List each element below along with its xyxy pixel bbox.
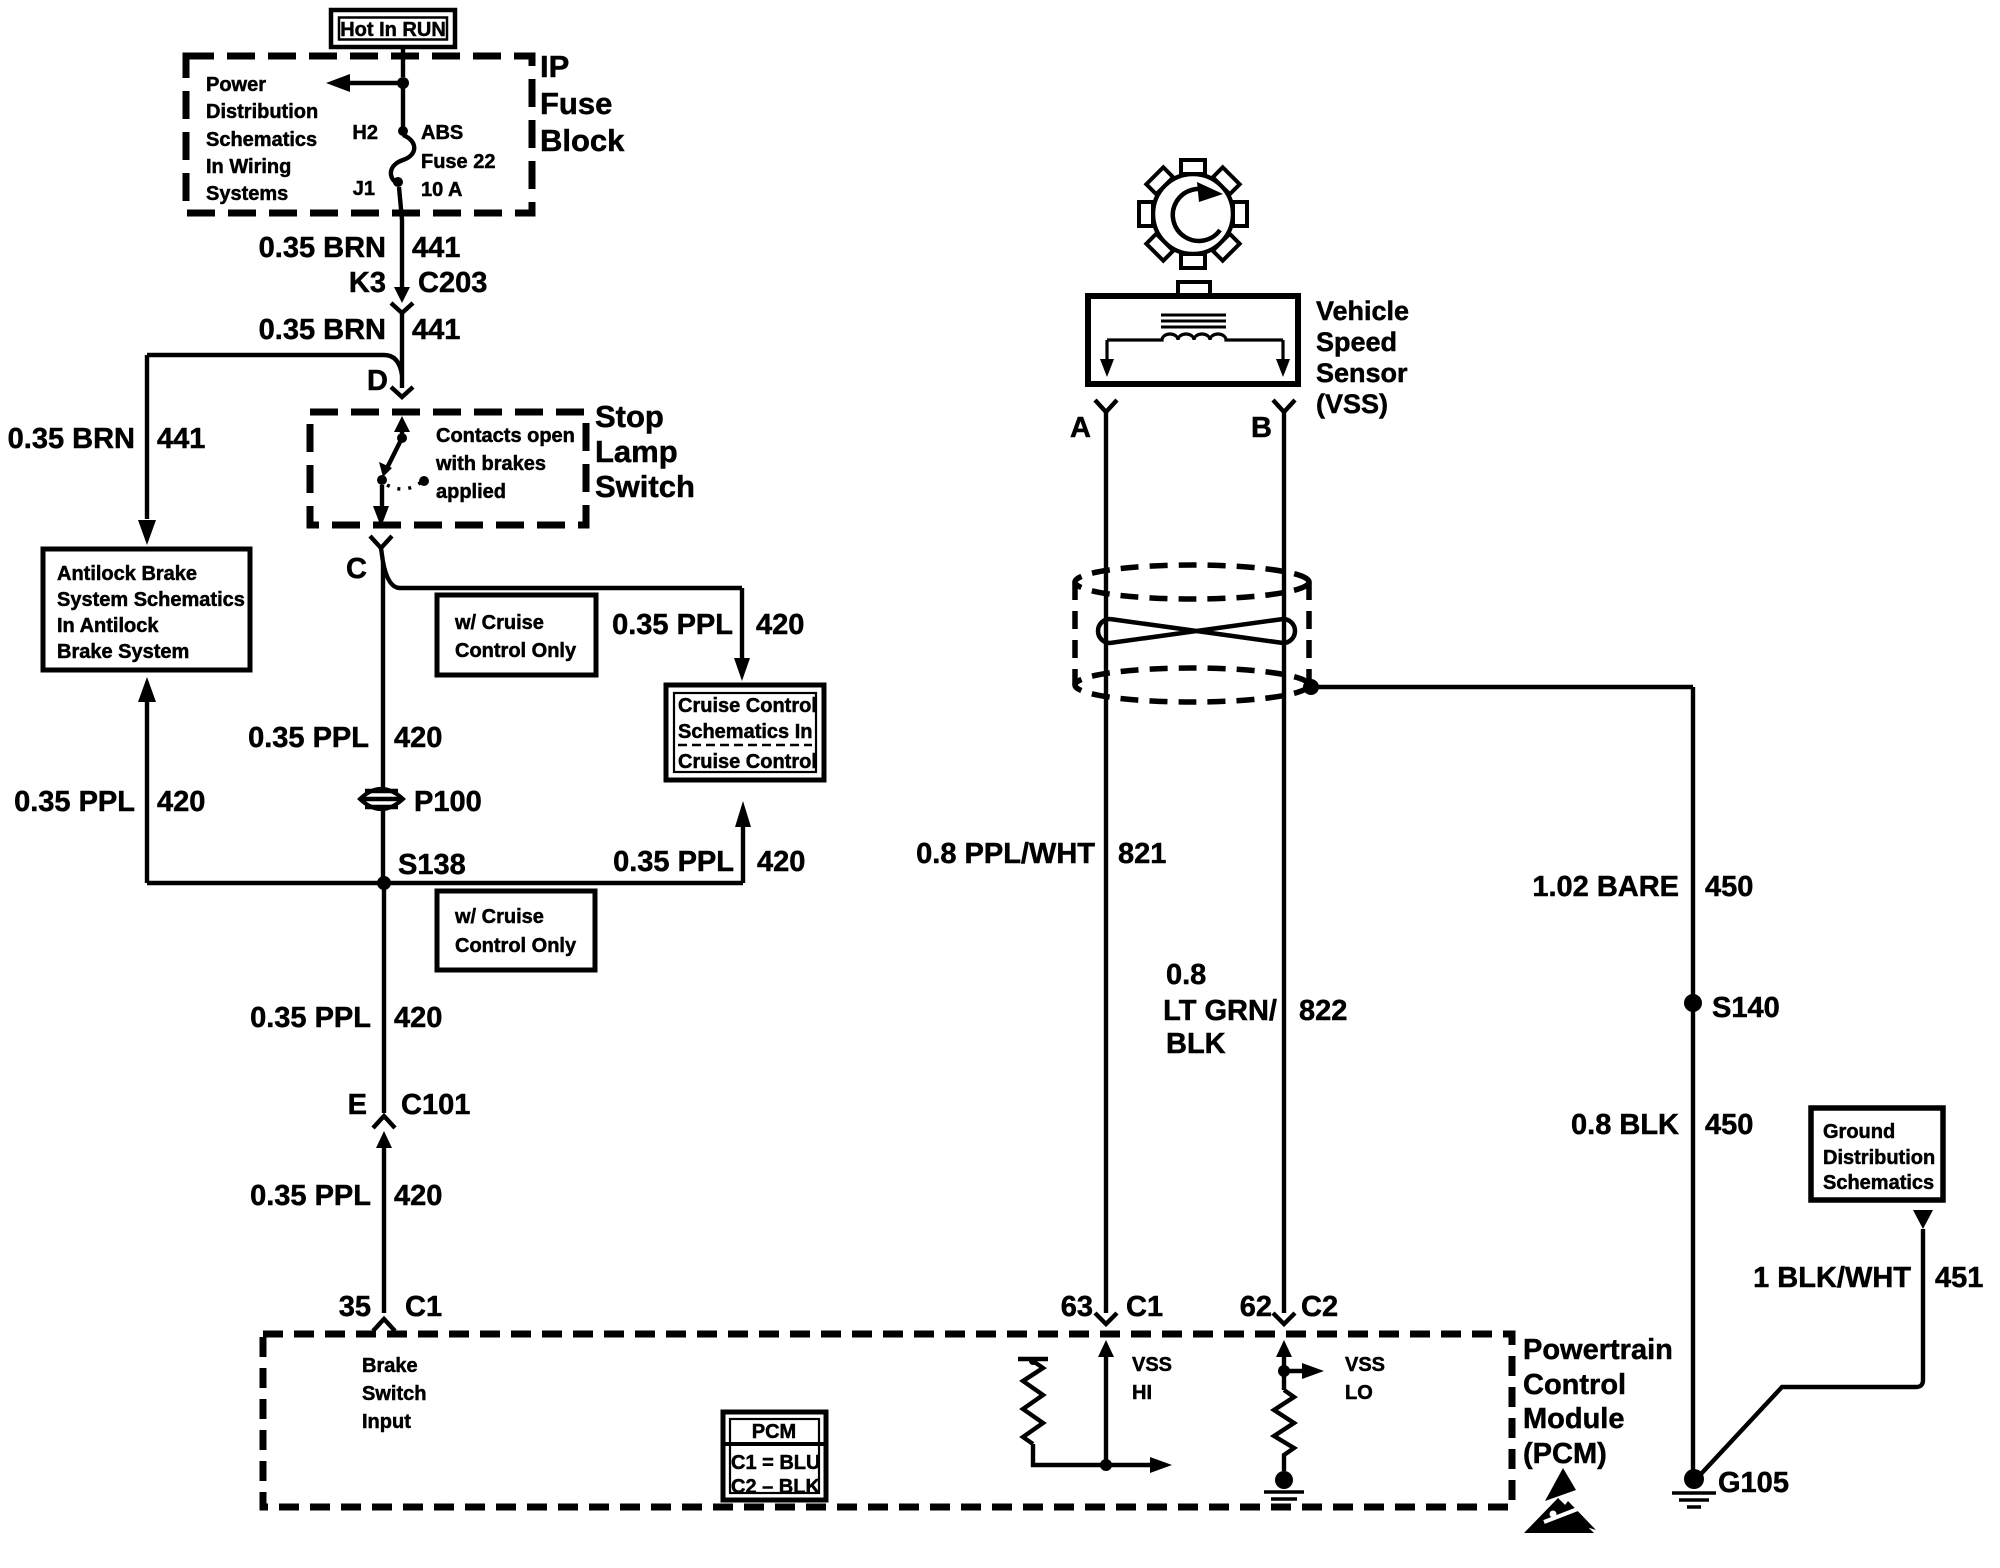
svg-text:A: A xyxy=(1070,412,1091,444)
svg-text:Powertrain: Powertrain xyxy=(1523,1334,1673,1366)
svg-text:(VSS): (VSS) xyxy=(1316,389,1388,419)
svg-text:10 A: 10 A xyxy=(421,179,463,201)
svg-text:applied: applied xyxy=(436,481,506,503)
svg-text:1 BLK/WHT: 1 BLK/WHT xyxy=(1753,1262,1911,1294)
svg-text:J1: J1 xyxy=(353,178,375,200)
svg-text:420: 420 xyxy=(394,1180,442,1212)
svg-text:0.8 PPL/WHT: 0.8 PPL/WHT xyxy=(916,838,1095,870)
svg-text:Contacts open: Contacts open xyxy=(436,425,575,447)
svg-text:0.35 PPL: 0.35 PPL xyxy=(250,1180,371,1212)
svg-text:Control Only: Control Only xyxy=(455,640,577,662)
svg-text:420: 420 xyxy=(394,722,442,754)
svg-text:0.35 PPL: 0.35 PPL xyxy=(14,786,135,818)
svg-text:420: 420 xyxy=(756,609,804,641)
svg-text:Distribution: Distribution xyxy=(1823,1147,1935,1169)
svg-text:Hot In RUN: Hot In RUN xyxy=(340,19,446,41)
svg-text:P100: P100 xyxy=(414,786,482,818)
svg-text:Schematics In: Schematics In xyxy=(678,721,813,743)
svg-text:0.35 PPL: 0.35 PPL xyxy=(250,1002,371,1034)
svg-text:H2: H2 xyxy=(352,122,378,144)
svg-text:Vehicle: Vehicle xyxy=(1316,296,1409,326)
svg-text:w/ Cruise: w/ Cruise xyxy=(454,906,544,928)
svg-text:LT GRN/: LT GRN/ xyxy=(1163,995,1277,1027)
svg-text:Brake System: Brake System xyxy=(57,641,189,663)
svg-text:Sensor: Sensor xyxy=(1316,358,1408,388)
svg-text:C203: C203 xyxy=(418,267,487,299)
svg-text:Control: Control xyxy=(1523,1369,1626,1401)
svg-text:In Wiring: In Wiring xyxy=(206,156,291,178)
svg-text:with brakes: with brakes xyxy=(435,453,546,475)
svg-text:C2: C2 xyxy=(1301,1291,1338,1323)
svg-text:451: 451 xyxy=(1935,1262,1983,1294)
svg-text:Switch: Switch xyxy=(595,469,695,504)
svg-text:C: C xyxy=(346,553,367,585)
svg-text:Ground: Ground xyxy=(1823,1121,1895,1143)
svg-text:Lamp: Lamp xyxy=(595,434,678,469)
svg-text:Block: Block xyxy=(540,123,625,158)
svg-text:System Schematics: System Schematics xyxy=(57,589,245,611)
svg-text:Fuse: Fuse xyxy=(540,86,612,121)
svg-text:62: 62 xyxy=(1240,1291,1272,1323)
svg-text:Schematics: Schematics xyxy=(1823,1172,1934,1194)
svg-text:LO: LO xyxy=(1345,1382,1373,1404)
svg-text:G105: G105 xyxy=(1718,1467,1789,1499)
svg-text:Fuse 22: Fuse 22 xyxy=(421,151,495,173)
svg-text:C1 = BLU: C1 = BLU xyxy=(731,1452,820,1474)
svg-text:PCM: PCM xyxy=(752,1421,796,1443)
svg-text:420: 420 xyxy=(757,846,805,878)
svg-text:E: E xyxy=(348,1089,367,1121)
svg-text:C1: C1 xyxy=(405,1291,442,1323)
svg-text:ABS: ABS xyxy=(421,122,463,144)
svg-text:0.8 BLK: 0.8 BLK xyxy=(1571,1109,1679,1141)
svg-text:420: 420 xyxy=(157,786,205,818)
svg-text:822: 822 xyxy=(1299,995,1347,1027)
svg-text:Cruise Control: Cruise Control xyxy=(678,695,817,717)
svg-text:441: 441 xyxy=(157,423,205,455)
svg-text:(PCM): (PCM) xyxy=(1523,1438,1607,1470)
svg-text:w/ Cruise: w/ Cruise xyxy=(454,612,544,634)
svg-text:D: D xyxy=(367,365,388,397)
svg-text:Module: Module xyxy=(1523,1403,1625,1435)
svg-text:VSS: VSS xyxy=(1345,1354,1385,1376)
svg-text:35: 35 xyxy=(339,1291,371,1323)
svg-text:IP: IP xyxy=(540,49,569,84)
svg-text:0.35 BRN: 0.35 BRN xyxy=(259,232,386,264)
svg-text:C101: C101 xyxy=(401,1089,470,1121)
svg-text:Cruise Control: Cruise Control xyxy=(678,751,817,773)
svg-text:Power: Power xyxy=(206,74,266,96)
svg-text:0.8: 0.8 xyxy=(1166,959,1206,991)
svg-text:Systems: Systems xyxy=(206,183,288,205)
svg-text:Schematics: Schematics xyxy=(206,129,317,151)
svg-text:HI: HI xyxy=(1132,1382,1152,1404)
svg-text:C2 – BLK: C2 – BLK xyxy=(731,1476,820,1498)
svg-text:0.35 BRN: 0.35 BRN xyxy=(8,423,135,455)
svg-text:B: B xyxy=(1251,412,1272,444)
svg-text:0.35 PPL: 0.35 PPL xyxy=(612,609,733,641)
svg-text:S138: S138 xyxy=(398,849,466,881)
svg-text:1.02 BARE: 1.02 BARE xyxy=(1532,871,1679,903)
svg-text:In Antilock: In Antilock xyxy=(57,615,159,637)
svg-text:Distribution: Distribution xyxy=(206,101,318,123)
svg-text:Control Only: Control Only xyxy=(455,935,577,957)
svg-text:Brake: Brake xyxy=(362,1355,418,1377)
svg-text:Input: Input xyxy=(362,1411,411,1433)
svg-text:Stop: Stop xyxy=(595,399,664,434)
svg-text:0.35 BRN: 0.35 BRN xyxy=(259,314,386,346)
svg-text:C1: C1 xyxy=(1126,1291,1163,1323)
svg-text:420: 420 xyxy=(394,1002,442,1034)
svg-text:441: 441 xyxy=(412,314,460,346)
svg-text:0.35 PPL: 0.35 PPL xyxy=(613,846,734,878)
svg-text:0.35 PPL: 0.35 PPL xyxy=(248,722,369,754)
svg-text:450: 450 xyxy=(1705,1109,1753,1141)
svg-text:VSS: VSS xyxy=(1132,1354,1172,1376)
svg-text:821: 821 xyxy=(1118,838,1166,870)
svg-text:450: 450 xyxy=(1705,871,1753,903)
svg-text:63: 63 xyxy=(1061,1291,1093,1323)
svg-text:441: 441 xyxy=(412,232,460,264)
svg-text:S140: S140 xyxy=(1712,992,1780,1024)
svg-text:Antilock Brake: Antilock Brake xyxy=(57,563,197,585)
svg-text:Speed: Speed xyxy=(1316,327,1397,357)
svg-text:BLK: BLK xyxy=(1166,1028,1226,1060)
svg-text:Switch: Switch xyxy=(362,1383,426,1405)
svg-text:K3: K3 xyxy=(349,267,386,299)
